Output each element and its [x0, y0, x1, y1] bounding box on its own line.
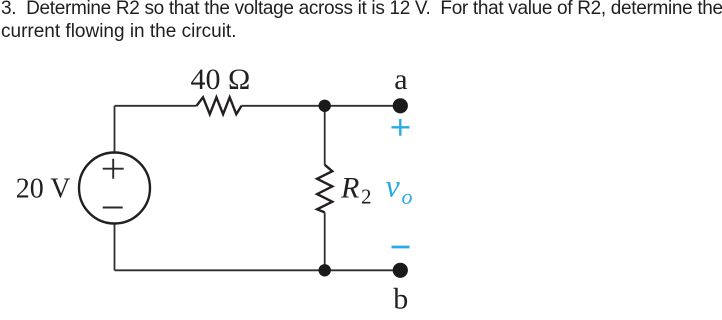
minus sign inside source	[103, 207, 123, 209]
svg-text:a: a	[394, 63, 407, 96]
svg-text:2: 2	[361, 185, 372, 209]
wire: bottom horizontal	[115, 269, 401, 271]
wire: top left horizontal from source branch to 40ohm resistor	[115, 105, 197, 107]
wire: left vertical above voltage source	[114, 106, 116, 153]
voltage source circle	[79, 153, 150, 224]
terminal dot a	[393, 98, 408, 113]
junction dot top	[319, 100, 331, 112]
terminal dot b	[393, 263, 408, 278]
svg-text:b: b	[393, 283, 408, 316]
resistor 40 ohm (zigzag)	[197, 97, 242, 114]
resistor R2 (vertical zigzag)	[317, 165, 332, 213]
wire: right branch vertical above R2	[324, 106, 326, 165]
wire: right branch vertical below R2	[324, 212, 326, 270]
svg-text:20 V: 20 V	[16, 173, 71, 204]
blue minus (polarity of vo)	[392, 246, 410, 249]
wire: top horizontal from 40ohm resistor to node a	[242, 105, 401, 107]
junction dot bottom	[319, 264, 331, 276]
problem statement text	[1, 0, 722, 44]
svg-text:40 Ω: 40 Ω	[191, 63, 251, 96]
plus sign inside source	[103, 159, 124, 179]
wire: left vertical below voltage source	[114, 223, 116, 270]
svg-text:v: v	[386, 168, 401, 204]
svg-text:R: R	[340, 172, 359, 205]
svg-text:o: o	[402, 184, 413, 209]
blue plus (polarity of vo)	[392, 119, 410, 136]
